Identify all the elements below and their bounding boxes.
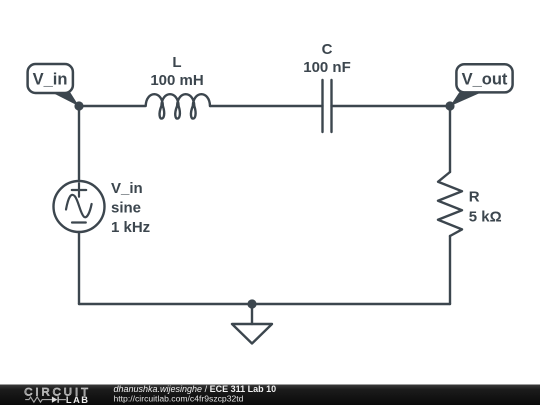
svg-text:LAB: LAB	[66, 395, 90, 405]
wire capacitor to node V_out	[332, 105, 451, 107]
capacitor C1 plates	[323, 80, 332, 132]
svg-text:V_in: V_in	[33, 71, 68, 89]
wire node V_in down to source	[78, 106, 80, 181]
svg-text:V_out: V_out	[462, 71, 508, 89]
voltage source V1 circle	[54, 181, 105, 232]
svg-text:L: L	[172, 54, 181, 71]
logo diode triangle	[52, 397, 58, 403]
logo resistor squiggle	[25, 397, 66, 402]
wire inductor to capacitor	[210, 105, 323, 107]
flag V_in box	[28, 64, 73, 93]
wire node V_out down to resistor	[449, 106, 451, 172]
voltage source V1 plus sign	[72, 183, 86, 196]
ground stub	[251, 304, 253, 324]
svg-text:V_in: V_in	[111, 180, 143, 197]
svg-text:5 kΩ: 5 kΩ	[469, 209, 502, 226]
logo diode bar	[58, 396, 59, 402]
svg-text:http://circuitlab.com/c4fr9szc: http://circuitlab.com/c4fr9szcp32td	[114, 394, 244, 404]
resistor R1 zigzag	[438, 172, 462, 236]
flag V_out pointer	[450, 92, 482, 106]
wire bottom rail	[79, 303, 450, 305]
junction dot bottom rail	[247, 299, 256, 308]
svg-text:100 nF: 100 nF	[303, 59, 351, 76]
svg-text:C: C	[322, 41, 333, 58]
node V_in dot	[74, 101, 83, 110]
svg-text:100 mH: 100 mH	[150, 72, 203, 89]
wire resistor to bottom	[449, 236, 451, 304]
svg-text:sine: sine	[111, 200, 141, 217]
flag V_out box	[456, 64, 512, 92]
svg-text:R: R	[469, 189, 480, 206]
node V_out dot	[445, 101, 454, 110]
footer bar	[0, 385, 540, 405]
ground triangle	[232, 324, 272, 344]
voltage source V1 sine symbol	[66, 195, 92, 217]
wire source to bottom	[78, 232, 80, 304]
wire node V_in to inductor	[79, 105, 145, 107]
flag V_in pointer	[51, 92, 79, 106]
svg-text:dhanushka.wijesinghe / ECE 311: dhanushka.wijesinghe / ECE 311 Lab 10	[114, 384, 277, 394]
inductor L1 coil	[146, 94, 210, 118]
svg-text:1 kHz: 1 kHz	[111, 219, 150, 236]
voltage source V1 minus sign	[72, 221, 86, 223]
